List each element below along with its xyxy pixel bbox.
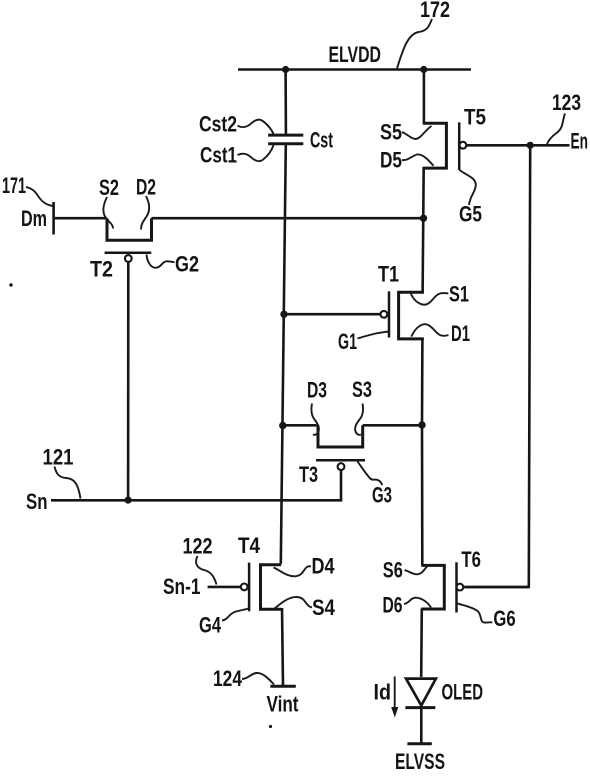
wire T6 drain down to OLED anode (420, 609, 423, 678)
junction dot rail-T5 (420, 66, 427, 73)
svg-text:Sn-1: Sn-1 (163, 574, 201, 599)
svg-text:ELVSS: ELVSS (395, 749, 445, 772)
junction dot T2 drain line (420, 215, 427, 222)
leader G5 (460, 170, 476, 205)
gate bubble T3 (338, 463, 345, 470)
svg-text:124: 124 (213, 666, 243, 691)
svg-text:G4: G4 (199, 613, 222, 638)
junction dot T1 gate / Cst (280, 311, 287, 318)
svg-text:G1: G1 (338, 329, 357, 354)
svg-text:D6: D6 (383, 593, 403, 618)
wire T1 drain down to T3 row (421, 338, 424, 426)
wire T5 gate bubble to En (466, 144, 569, 147)
svg-text:123: 123 (552, 90, 581, 115)
svg-text:T1: T1 (378, 262, 399, 287)
terminal bar Vint (270, 685, 296, 688)
svg-text:S3: S3 (352, 377, 372, 402)
wire Dm to T2 source (55, 217, 106, 220)
wire T2 drain to right rail (152, 217, 424, 220)
wire Cst bottom plate down to T4 (node N1) (281, 145, 286, 564)
svg-text:Sn: Sn (26, 489, 48, 514)
leader D5 (402, 154, 434, 165)
transistor T4 (261, 565, 282, 609)
leader D6 (404, 598, 431, 608)
leader 123 (547, 114, 565, 145)
terminal bar ELVSS (407, 742, 431, 745)
svg-text:D3: D3 (307, 378, 327, 403)
svg-text:ELVDD: ELVDD (329, 42, 382, 67)
leader G1 (358, 332, 389, 339)
leader S2 (103, 197, 113, 229)
leader G6 (457, 603, 492, 622)
svg-text:Cst: Cst (310, 128, 333, 153)
svg-text:122: 122 (183, 534, 213, 559)
transistor T2 (107, 218, 152, 240)
leader D3 (311, 404, 318, 435)
wire node N1 to T3 drain (283, 424, 317, 427)
wire T3 source to right rail (363, 424, 422, 427)
svg-text:T3: T3 (299, 462, 318, 487)
wire OLED cathode to ELVSS (420, 709, 423, 744)
leader 171 (26, 187, 53, 206)
capacitor Cst (268, 135, 303, 144)
svg-text:S6: S6 (383, 558, 403, 583)
leader S5 (402, 126, 432, 139)
junction dot T3 right (418, 421, 425, 428)
wire T5 drain down to T1 source (node N2) (423, 167, 424, 293)
wire Sn scan line (51, 499, 342, 502)
gate bar T5 (458, 122, 461, 170)
wire T3 right down to T6 source (421, 425, 424, 565)
gate bar T3 (316, 459, 365, 462)
svg-text:D2: D2 (136, 175, 156, 200)
svg-text:G2: G2 (175, 252, 199, 277)
leader D1 (411, 324, 448, 336)
svg-text:121: 121 (43, 445, 74, 470)
leader S1 (411, 293, 449, 305)
svg-text:171: 171 (2, 173, 26, 198)
diode OLED (405, 679, 436, 708)
svg-text:D4: D4 (312, 554, 336, 579)
scan speck below Vint (269, 725, 272, 728)
svg-text:Cst2: Cst2 (199, 112, 237, 137)
leader Cst1 (238, 145, 274, 162)
junction dot En (527, 142, 534, 149)
svg-text:T5: T5 (464, 105, 486, 130)
gate bubble T4 (241, 584, 248, 591)
svg-text:S1: S1 (449, 282, 469, 307)
current arrow Id (391, 677, 398, 718)
leader D4 (274, 566, 312, 576)
leader S4 (274, 597, 312, 609)
gate bar T4 (248, 563, 251, 612)
ELVDD power rail (238, 68, 471, 71)
terminal tick Dm (52, 202, 55, 235)
svg-text:S2: S2 (99, 175, 119, 200)
leader Cst2 (238, 120, 274, 135)
wire T6 gate to En line (463, 586, 528, 589)
gate bubble T5 (460, 142, 467, 149)
junction dot T3 left (279, 422, 286, 429)
leader G4 (222, 609, 249, 621)
junction dot rail-Cst (282, 66, 289, 73)
svg-text:Cst1: Cst1 (200, 143, 237, 168)
wire T1 gate to Cst node (284, 313, 381, 316)
svg-text:Id: Id (374, 680, 392, 705)
leader S6 (405, 566, 429, 575)
svg-text:Dm: Dm (21, 206, 47, 231)
svg-text:S5: S5 (380, 120, 402, 145)
svg-text:S4: S4 (312, 595, 336, 620)
leader D2 (141, 196, 149, 230)
gate bar T2 (105, 251, 152, 254)
leader S3 (355, 404, 363, 435)
gate bubble T6 (457, 584, 464, 591)
svg-text:G6: G6 (493, 606, 515, 631)
wire T4 drain down to Vint (282, 608, 283, 686)
svg-text:G5: G5 (459, 202, 482, 227)
svg-text:OLED: OLED (442, 680, 484, 705)
leader G2 (147, 255, 175, 268)
svg-text:172: 172 (420, 0, 450, 22)
wire T3 gate down to Sn (340, 470, 343, 499)
svg-text:T4: T4 (238, 533, 261, 558)
transistor T5 (423, 123, 447, 168)
gate bubble T2 (125, 255, 132, 262)
transistor T1 (399, 292, 424, 339)
leader 172 (397, 19, 432, 69)
wire rail to Cst top plate (284, 70, 287, 134)
svg-text:Vint: Vint (267, 692, 300, 717)
transistor T3 (318, 425, 363, 447)
gate bubble T1 (381, 311, 388, 318)
svg-text:D1: D1 (451, 321, 470, 346)
svg-text:T2: T2 (90, 257, 113, 282)
junction dot Sn / T2 gate (125, 497, 132, 504)
leader 124 (242, 673, 274, 685)
leader 121 (55, 467, 81, 499)
svg-text:T6: T6 (461, 547, 481, 572)
wire T2 gate down to Sn (127, 262, 130, 500)
scan speck left (9, 283, 12, 286)
leader G3 (358, 462, 383, 486)
leader 122 (196, 556, 216, 585)
wire En line down to T6 gate (465, 145, 530, 587)
svg-text:D5: D5 (380, 148, 402, 173)
gate bar T1 (388, 291, 391, 337)
transistor T6 (421, 565, 444, 609)
gate bar T6 (455, 562, 458, 612)
wire rail down to T5 source (423, 70, 426, 125)
wire Sn-1 to T4 gate (208, 586, 241, 589)
svg-text:En: En (571, 129, 589, 154)
svg-text:G3: G3 (372, 483, 392, 508)
